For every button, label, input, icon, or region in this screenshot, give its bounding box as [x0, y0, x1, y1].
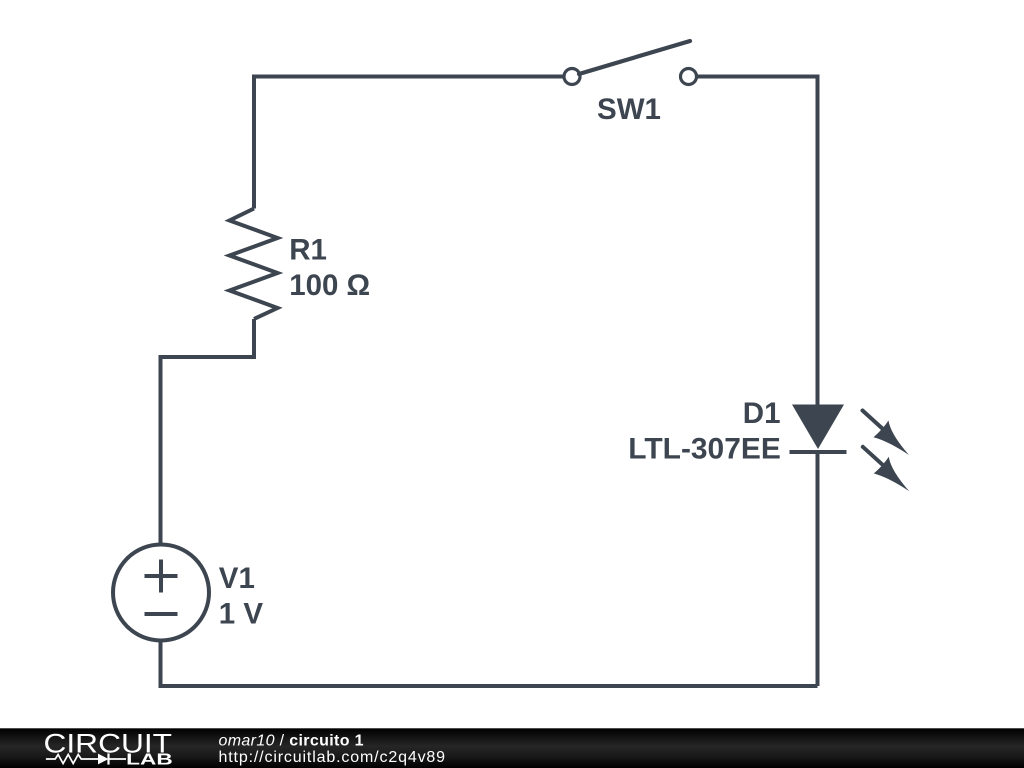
svg-text:LTL-307EE: LTL-307EE	[628, 432, 781, 465]
label R1 value	[289, 234, 370, 303]
svg-text:D1: D1	[743, 397, 781, 430]
voltage source V1	[113, 545, 209, 641]
switch SW1	[564, 41, 697, 85]
label V1 value	[219, 562, 264, 631]
LED D1	[790, 405, 847, 453]
LED arrow 1	[863, 411, 910, 456]
wire left vertical above V1	[161, 319, 255, 545]
svg-text:omar10 / circuito 1: omar10 / circuito 1	[219, 732, 364, 749]
wire right vertical below LED	[816, 452, 820, 686]
svg-text:http://circuitlab.com/c2q4v89: http://circuitlab.com/c2q4v89	[219, 749, 446, 766]
svg-text:1 V: 1 V	[219, 598, 264, 631]
svg-text:SW1: SW1	[597, 93, 661, 126]
footer bar	[0, 728, 1024, 768]
wire top-right horizontal	[697, 77, 818, 407]
wire bottom horizontal	[161, 641, 818, 687]
label D1 value	[628, 397, 781, 465]
svg-text:V1: V1	[219, 562, 255, 595]
LED arrow 2	[863, 447, 910, 492]
resistor R1	[230, 209, 278, 320]
svg-text:R1: R1	[289, 234, 327, 267]
svg-text:LAB: LAB	[126, 752, 173, 768]
svg-text:100 Ω: 100 Ω	[289, 269, 370, 302]
wire top-left horizontal	[254, 77, 564, 209]
logo resistor-diode glyph	[46, 753, 126, 764]
